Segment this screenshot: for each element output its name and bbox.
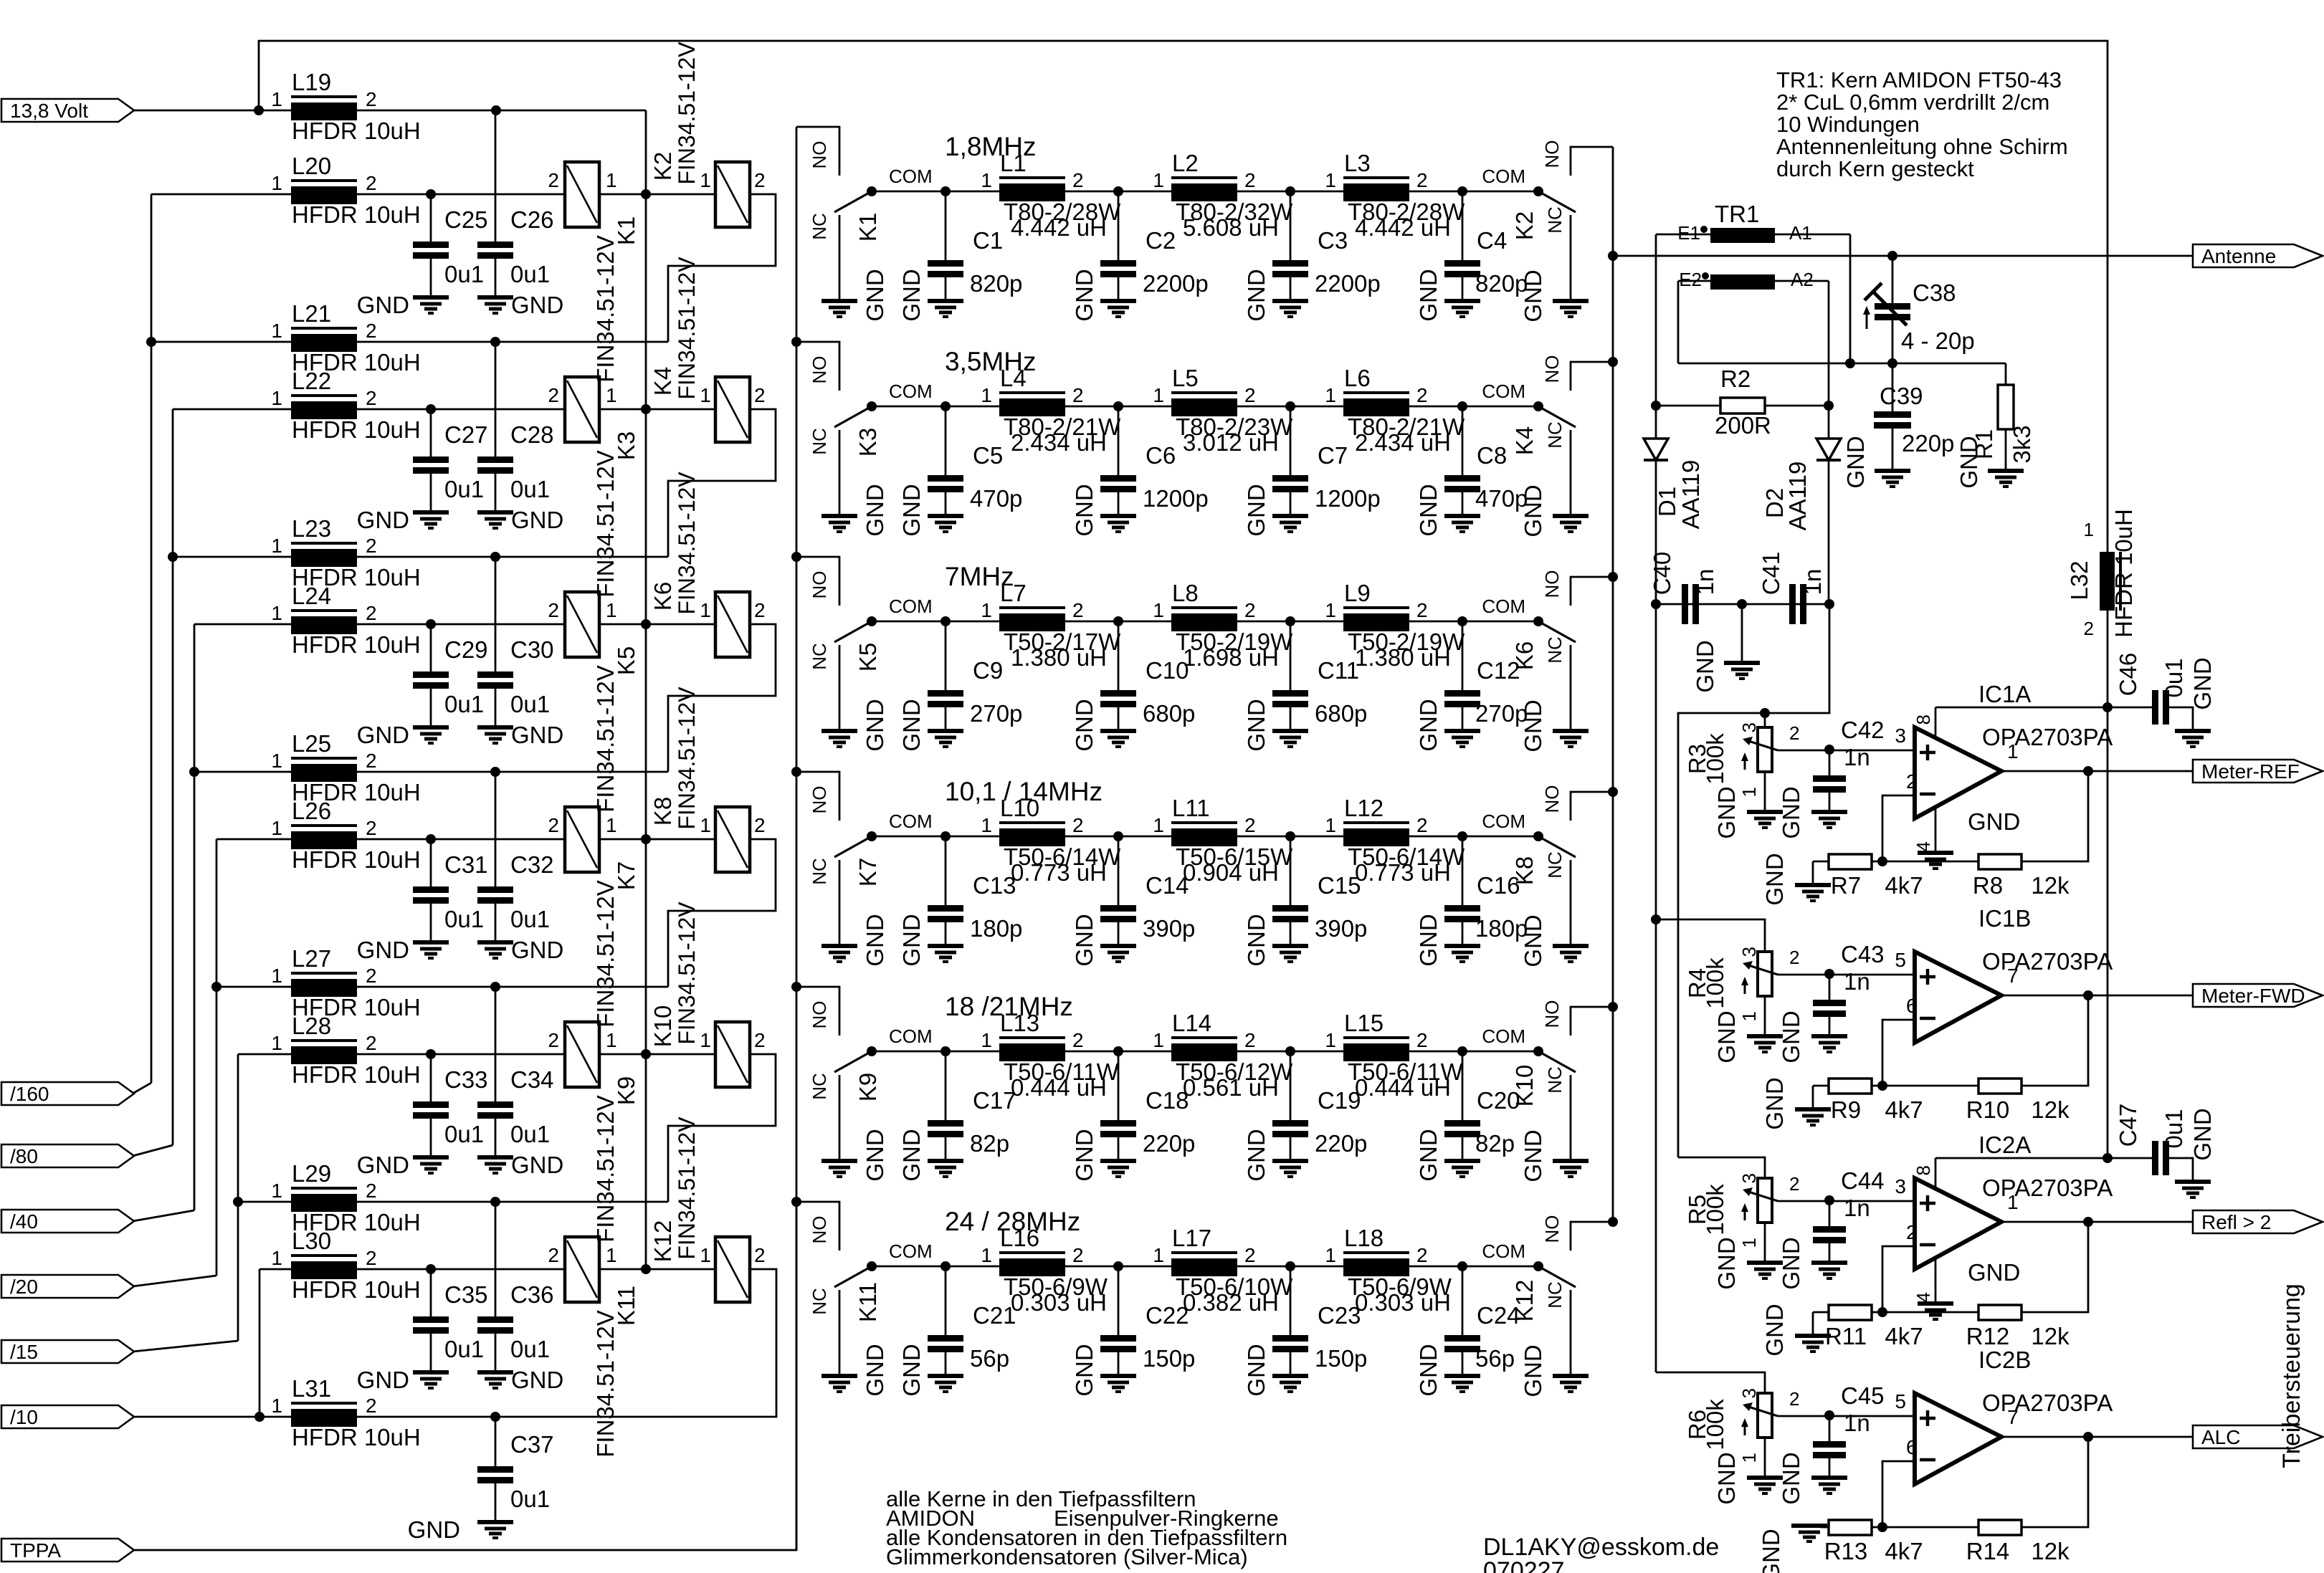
capacitor C10: [1118, 621, 1120, 690]
svg-text:IC1A: IC1A: [1978, 681, 2031, 707]
junction C17 tap: [940, 1046, 951, 1056]
svg-text:NO: NO: [809, 786, 830, 814]
svg-text:GND: GND: [511, 722, 563, 748]
capacitor C18: [1118, 1051, 1120, 1120]
svg-text:0u1: 0u1: [510, 1486, 550, 1512]
svg-text:L17: L17: [1172, 1225, 1211, 1251]
switch K10 blade: [1538, 1051, 1576, 1072]
svg-text:C22: C22: [1146, 1302, 1189, 1329]
ground C1: [928, 299, 963, 303]
svg-text:K7: K7: [854, 858, 881, 886]
svg-text:1: 1: [981, 169, 992, 191]
svg-text:1: 1: [271, 965, 282, 987]
capacitor C21: [945, 1266, 947, 1335]
wire /40 to riser: [133, 1210, 194, 1221]
svg-text:OPA2703PA: OPA2703PA: [1982, 1390, 2113, 1416]
junction C38 rail: [1887, 358, 1897, 368]
capacitor C37: [495, 1419, 497, 1466]
wire L32 bus: [2107, 532, 2109, 552]
svg-text:100k: 100k: [1702, 733, 1728, 785]
wire pin 4 ground: [1935, 808, 1937, 853]
svg-text:Refl > 2: Refl > 2: [2201, 1211, 2271, 1233]
svg-text:NO: NO: [809, 356, 830, 384]
wire /15 to riser: [133, 1341, 238, 1352]
svg-text:C41: C41: [1758, 552, 1784, 596]
ground C17: [928, 1159, 963, 1163]
svg-text:FIN34.51-12V: FIN34.51-12V: [592, 235, 619, 382]
svg-text:GND: GND: [1071, 1129, 1097, 1181]
wire K6 staircase: [668, 624, 776, 772]
switch K1 blade: [834, 191, 872, 212]
junction riser lower row: [233, 1197, 243, 1207]
svg-text:2: 2: [548, 384, 559, 406]
svg-text:2: 2: [1072, 1244, 1084, 1266]
svg-text:OPA2703PA: OPA2703PA: [1982, 1175, 2113, 1201]
switch K12 NO bracket: [1571, 1222, 1613, 1251]
svg-text:L25: L25: [292, 730, 331, 757]
ground C14: [1100, 944, 1136, 948]
svg-text:GND: GND: [1761, 1304, 1788, 1356]
svg-text:GND: GND: [511, 1367, 563, 1393]
svg-text:GND: GND: [1968, 808, 2020, 835]
switch K9 NO bracket: [796, 987, 839, 1036]
wire R6 to ground: [1764, 1438, 1766, 1478]
inductor L27: [291, 972, 357, 975]
wire detector rail: [1678, 363, 2006, 365]
svg-text:GND: GND: [1243, 269, 1270, 321]
transformer TR1 winding E2-A2: [1710, 274, 1775, 290]
wire COM left: [872, 1051, 999, 1053]
node ALC output flag: [2193, 1425, 2323, 1448]
svg-text:L8: L8: [1172, 580, 1199, 606]
svg-text:C45: C45: [1841, 1382, 1885, 1409]
svg-text:0.382 uH: 0.382 uH: [1183, 1289, 1279, 1316]
svg-text:2: 2: [366, 387, 377, 409]
svg-text:1: 1: [271, 750, 282, 772]
wire pin 8 supply: [1935, 1158, 1937, 1189]
svg-text:1.380 uH: 1.380 uH: [1355, 644, 1451, 671]
svg-text:12k: 12k: [2031, 1323, 2070, 1349]
svg-text:COM: COM: [1482, 381, 1525, 402]
relay coil K12: [715, 1237, 750, 1302]
wire A2 down: [1828, 281, 1830, 406]
switch K3 blade: [834, 406, 872, 427]
svg-text:100k: 100k: [1702, 957, 1728, 1009]
svg-text:3k3: 3k3: [2009, 425, 2035, 463]
svg-text:1: 1: [981, 1029, 992, 1051]
svg-text:4.442 uH: 4.442 uH: [1355, 214, 1451, 241]
svg-text:GND: GND: [1842, 436, 1869, 488]
capacitor C28: [495, 342, 497, 456]
switch K6 NO bracket: [1571, 577, 1613, 606]
op-amp IC1A OPA2703PA: [1915, 727, 2001, 818]
capacitor C20: [1462, 1051, 1464, 1120]
switch K8 blade: [1538, 836, 1576, 857]
svg-text:L16: L16: [1000, 1225, 1039, 1251]
junction C19 tap: [1285, 1046, 1295, 1056]
switch K3 NO bracket: [796, 342, 839, 391]
svg-text:K7: K7: [613, 861, 639, 890]
svg-text:C14: C14: [1146, 872, 1189, 899]
svg-text:HFDR 10uH: HFDR 10uH: [292, 1276, 421, 1303]
svg-text:1: 1: [1325, 169, 1336, 191]
wire between inductors: [1237, 1266, 1343, 1268]
potentiometer R6 100k: [1758, 1393, 1772, 1438]
junction C10 tap: [1113, 616, 1123, 626]
svg-text:C19: C19: [1318, 1087, 1361, 1114]
inductor L17: [1171, 1251, 1237, 1254]
svg-text:COM: COM: [889, 1240, 933, 1262]
svg-text:2: 2: [366, 1032, 377, 1054]
ground C5: [928, 514, 963, 518]
switch K11 NO bracket: [796, 1202, 839, 1251]
svg-text:220p: 220p: [1902, 430, 1954, 456]
svg-text:200R: 200R: [1715, 412, 1771, 439]
wire TPPA to filter bus: [134, 1202, 796, 1550]
resistor R12 12k: [2021, 1222, 2088, 1312]
svg-text:K3: K3: [854, 428, 881, 456]
svg-text:680p: 680p: [1315, 700, 1367, 727]
svg-text:820p: 820p: [970, 270, 1022, 297]
svg-text:GND: GND: [1243, 1129, 1270, 1181]
svg-text:GND: GND: [1415, 269, 1442, 321]
switch K6 NC contact: [1570, 645, 1572, 729]
inductor L24: [291, 609, 357, 612]
wire wiper to +input: [1778, 1200, 1915, 1203]
svg-text:3: 3: [1895, 1175, 1906, 1197]
svg-text:0u1: 0u1: [510, 906, 550, 932]
svg-text:1: 1: [1738, 1238, 1760, 1248]
svg-text:C42: C42: [1841, 717, 1885, 743]
svg-text:L27: L27: [292, 945, 331, 972]
svg-text:0u1: 0u1: [510, 261, 550, 287]
svg-text:COM: COM: [889, 381, 933, 402]
switch K3 NC contact: [839, 430, 841, 514]
svg-text:1: 1: [606, 814, 617, 836]
svg-text:GND: GND: [1071, 914, 1097, 966]
capacitor C5: [945, 406, 947, 475]
wire R11 to ground: [1812, 1312, 1814, 1336]
svg-text:HFDR 10uH: HFDR 10uH: [2110, 509, 2137, 638]
svg-text:C39: C39: [1880, 383, 1923, 409]
wire L27 row: [216, 986, 292, 988]
svg-text:A1: A1: [1789, 222, 1812, 244]
inductor L31: [291, 1402, 357, 1405]
svg-text:C25: C25: [444, 206, 488, 233]
junction riser lower row: [189, 767, 199, 777]
svg-text:2: 2: [1906, 1221, 1918, 1243]
svg-text:7: 7: [2007, 1406, 2019, 1428]
capacitor C25: [430, 194, 432, 242]
svg-text:NO: NO: [1541, 785, 1563, 813]
svg-text:R10: R10: [1966, 1096, 2010, 1123]
ground C16: [1444, 944, 1480, 948]
svg-text:1: 1: [271, 1395, 282, 1417]
ground C31: [413, 940, 449, 945]
capacitor C22: [1118, 1266, 1120, 1335]
capacitor C45 1n: [1829, 1415, 1831, 1441]
wire feedback to -input: [1882, 1020, 1915, 1086]
wire band select /20 riser: [216, 839, 218, 1276]
svg-text:C5: C5: [973, 442, 1003, 469]
capacitor C26: [495, 110, 497, 242]
svg-text:2: 2: [754, 814, 766, 836]
svg-text:2: 2: [1072, 599, 1084, 621]
switch K12 NC contact: [1570, 1290, 1572, 1374]
wire K12 staircase: [668, 1269, 776, 1417]
svg-text:4: 4: [1913, 1292, 1934, 1302]
svg-text:R14: R14: [1966, 1538, 2010, 1564]
junction 13.8V bus: [641, 1049, 651, 1059]
svg-text:0u1: 0u1: [444, 476, 484, 502]
capacitor C27: [430, 409, 432, 456]
svg-text:1: 1: [606, 384, 617, 406]
junction 13.8V bus: [641, 619, 651, 629]
svg-text:NC: NC: [809, 213, 830, 240]
svg-text:070227: 070227: [1483, 1557, 1564, 1573]
svg-text:1: 1: [606, 1244, 617, 1266]
relay coil K6: [715, 592, 750, 657]
svg-text:ALC: ALC: [2201, 1426, 2240, 1448]
ground C24: [1444, 1374, 1480, 1378]
svg-text:1: 1: [700, 169, 711, 191]
inductor L5: [1171, 391, 1237, 394]
switch K10 NO bracket: [1571, 1007, 1613, 1036]
resistor R13 4k7: [1829, 1520, 1872, 1535]
ground C20: [1444, 1159, 1480, 1163]
svg-text:8: 8: [1913, 1165, 1934, 1175]
svg-text:OPA2703PA: OPA2703PA: [1982, 948, 2113, 975]
wire A1 down: [1849, 234, 1852, 363]
ground R4: [1747, 1034, 1783, 1038]
inductor L30: [291, 1254, 357, 1257]
svg-text:K12: K12: [1511, 1280, 1538, 1322]
wire between inductors: [1065, 191, 1171, 193]
ground R3: [1747, 810, 1783, 814]
svg-text:3: 3: [1738, 947, 1760, 957]
switch K2 NO bracket: [1571, 147, 1613, 176]
wire feedback to -input: [1882, 795, 1915, 861]
svg-text:1: 1: [981, 599, 992, 621]
svg-text:2: 2: [1416, 1244, 1428, 1266]
svg-text:K3: K3: [613, 431, 639, 460]
ground C7: [1272, 514, 1308, 518]
svg-text:R8: R8: [1973, 872, 2003, 899]
svg-text:1200p: 1200p: [1315, 485, 1381, 512]
ground C46: [2175, 729, 2211, 733]
svg-text:GND: GND: [357, 507, 409, 533]
svg-text:GND: GND: [898, 699, 925, 751]
junction riser lower row: [211, 982, 222, 992]
junction riser lower row: [254, 1412, 265, 1422]
wire output: [2001, 770, 2193, 773]
wire L20 row: [151, 193, 292, 196]
ground switch K8: [1553, 944, 1589, 948]
wire K9 to bus: [599, 1053, 715, 1056]
ground C30: [477, 725, 513, 730]
svg-text:K12: K12: [649, 1220, 676, 1263]
svg-text:C6: C6: [1146, 442, 1176, 469]
inductor L21: [291, 327, 357, 330]
svg-text:GND: GND: [357, 1367, 409, 1393]
svg-text:FIN34.51-12V: FIN34.51-12V: [592, 665, 619, 812]
svg-text:K11: K11: [854, 1282, 881, 1322]
capacitor C17: [945, 1051, 947, 1120]
svg-text:durch Kern gesteckt: durch Kern gesteckt: [1776, 156, 1974, 181]
svg-text:Antenne: Antenne: [2201, 245, 2276, 267]
wire R7 to ground: [1812, 861, 1814, 885]
svg-text:GND: GND: [511, 507, 563, 533]
svg-text:0u1: 0u1: [510, 476, 550, 502]
svg-text:NO: NO: [809, 1216, 830, 1244]
svg-text:1.698 uH: 1.698 uH: [1183, 644, 1279, 671]
svg-text:0.773 uH: 0.773 uH: [1355, 859, 1451, 886]
svg-text:0u1: 0u1: [444, 691, 484, 717]
svg-text:12k: 12k: [2031, 1538, 2070, 1564]
svg-text:4k7: 4k7: [1885, 1323, 1923, 1349]
svg-text:GND: GND: [1520, 269, 1546, 322]
wire D1 output feed: [1655, 604, 1657, 1372]
svg-text:Meter-FWD: Meter-FWD: [2201, 985, 2305, 1007]
relay coil K2: [715, 162, 750, 227]
relay coil K10: [715, 1022, 750, 1087]
wire /20 to riser: [133, 1276, 216, 1286]
junction C35 tap: [426, 1264, 436, 1274]
svg-text:C11: C11: [1318, 657, 1359, 684]
svg-text:C31: C31: [444, 851, 488, 878]
capacitor C6: [1118, 406, 1120, 475]
node /10 input flag: [1, 1405, 134, 1428]
svg-text:GND: GND: [511, 1152, 563, 1178]
svg-text:L30: L30: [292, 1228, 331, 1254]
svg-text:C3: C3: [1318, 227, 1348, 254]
ground R7: [1795, 883, 1831, 887]
op-amp IC2B OPA2703PA: [1915, 1393, 2001, 1484]
svg-text:150p: 150p: [1143, 1345, 1195, 1372]
svg-text:L1: L1: [1000, 150, 1027, 176]
svg-text:2: 2: [1244, 599, 1256, 621]
inductor L1: [999, 176, 1065, 179]
ground pin 4: [1918, 1301, 1953, 1306]
wire band select /15 riser: [237, 1054, 239, 1341]
wire R5 to ground: [1764, 1223, 1766, 1263]
inductor L28: [291, 1039, 357, 1042]
svg-text:C36: C36: [510, 1281, 554, 1308]
switch K4 NO bracket: [1571, 362, 1613, 391]
svg-text:1: 1: [271, 535, 282, 557]
switch K2 blade: [1538, 191, 1576, 212]
inductor L22: [291, 394, 357, 397]
svg-text:HFDR 10uH: HFDR 10uH: [292, 118, 421, 144]
svg-text:1n: 1n: [1844, 968, 1870, 995]
ground C36: [477, 1370, 513, 1374]
svg-text:0u1: 0u1: [444, 1336, 484, 1362]
wire COM right: [1409, 621, 1538, 623]
wire K10 staircase: [668, 1054, 776, 1202]
svg-text:2200p: 2200p: [1143, 270, 1209, 297]
wire antenna filter bus right: [1612, 147, 1614, 1222]
svg-text:K6: K6: [1511, 641, 1538, 670]
svg-text:C27: C27: [444, 421, 488, 448]
svg-text:L21: L21: [292, 300, 331, 327]
resistor R14 12k: [2021, 1437, 2088, 1527]
svg-text:L2: L2: [1172, 150, 1199, 176]
svg-text:1: 1: [271, 1180, 282, 1202]
inductor L10: [999, 821, 1065, 824]
svg-text:1n: 1n: [1799, 569, 1826, 596]
svg-text:FIN34.51-12V: FIN34.51-12V: [674, 472, 700, 615]
wire L24 row: [194, 623, 292, 626]
wire L21 row: [151, 341, 292, 343]
svg-text:C2: C2: [1146, 227, 1176, 254]
ground R5: [1747, 1261, 1783, 1265]
ground C4: [1444, 299, 1480, 303]
svg-text:A2: A2: [1791, 269, 1814, 290]
capacitor C35: [430, 1269, 432, 1316]
svg-text:FIN34.51-12V: FIN34.51-12V: [674, 687, 700, 830]
svg-text:2: 2: [366, 535, 377, 557]
svg-text:TPPA: TPPA: [10, 1539, 61, 1562]
svg-text:1: 1: [1153, 599, 1164, 621]
svg-text:2: 2: [366, 1395, 377, 1417]
wire wiper to +input: [1778, 750, 1915, 752]
svg-text:IC2A: IC2A: [1978, 1132, 2031, 1158]
svg-text:NO: NO: [1541, 355, 1563, 383]
junction C32 tap: [490, 982, 500, 992]
capacitor C3: [1290, 191, 1292, 260]
capacitor C34: [495, 987, 497, 1101]
svg-text:/40: /40: [10, 1210, 38, 1233]
svg-text:56p: 56p: [1475, 1345, 1515, 1372]
potentiometer R3 100k: [1758, 727, 1772, 772]
svg-text:COM: COM: [1482, 166, 1525, 187]
capacitor C2: [1118, 191, 1120, 260]
junction C8 tap: [1457, 401, 1467, 411]
svg-text:0u1: 0u1: [510, 1336, 550, 1362]
svg-text:680p: 680p: [1143, 700, 1195, 727]
svg-text:1: 1: [700, 1244, 711, 1266]
svg-text:L18: L18: [1344, 1225, 1384, 1251]
wire E1 down: [1655, 234, 1657, 406]
svg-text:E1: E1: [1677, 222, 1700, 244]
svg-text:K2: K2: [649, 152, 676, 181]
svg-text:100k: 100k: [1702, 1399, 1728, 1450]
inductor L19: [291, 95, 357, 98]
svg-text:270p: 270p: [970, 700, 1022, 727]
svg-text:R13: R13: [1824, 1538, 1868, 1564]
svg-text:C21: C21: [973, 1302, 1016, 1329]
svg-text:GND: GND: [1071, 484, 1097, 536]
svg-text:C35: C35: [444, 1281, 488, 1308]
svg-text:2: 2: [1244, 814, 1256, 836]
svg-text:2: 2: [1789, 1388, 1799, 1410]
svg-text:4k7: 4k7: [1885, 872, 1923, 899]
svg-text:2: 2: [1789, 722, 1799, 744]
svg-text:2: 2: [1416, 599, 1428, 621]
wire band select /80 riser: [172, 409, 174, 1145]
svg-text:FIN34.51-12V: FIN34.51-12V: [592, 450, 619, 597]
svg-text:L15: L15: [1344, 1010, 1384, 1036]
wire output: [2001, 1221, 2193, 1223]
wire D2 output feed: [1678, 604, 1829, 1157]
svg-text:GND: GND: [898, 1344, 925, 1396]
svg-text:C1: C1: [973, 227, 1003, 254]
capacitor C39: [1892, 363, 1894, 411]
svg-text:2: 2: [1906, 770, 1918, 793]
capacitor C38 trimmer: [1892, 256, 1894, 303]
junction C15 tap: [1285, 831, 1295, 841]
svg-text:HFDR 10uH: HFDR 10uH: [292, 416, 421, 443]
